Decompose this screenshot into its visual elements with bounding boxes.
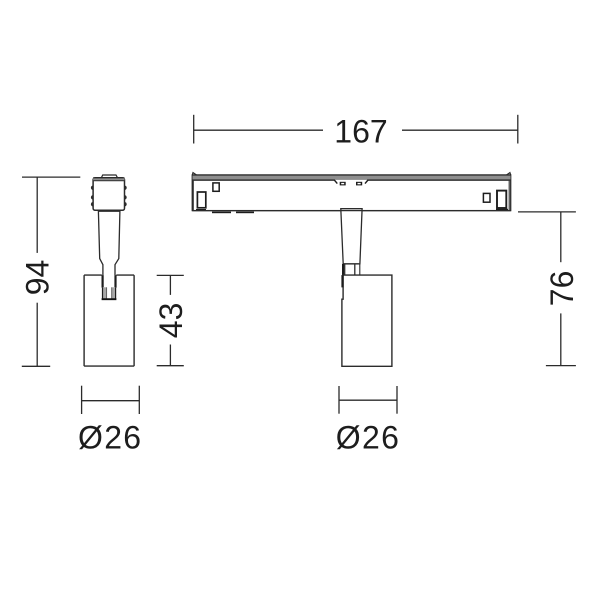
spotlight side view: tapered stem and neck xyxy=(98,211,120,287)
dimension 43: measure line xyxy=(169,275,171,365)
svg-text:167: 167 xyxy=(334,113,387,149)
track profile: middle cutout right edge xyxy=(365,180,368,184)
dimension 94: top tick xyxy=(22,176,80,178)
dimension 167: measure line xyxy=(194,129,518,131)
track profile: right slot rectangle large xyxy=(497,191,506,208)
track profile: body xyxy=(192,175,510,211)
track profile: right end double edge xyxy=(508,177,510,211)
spotlight side view: slot left wall xyxy=(101,275,103,288)
dimension diameter 26 right: left tick xyxy=(338,386,340,414)
track profile: top-right corner chamfer xyxy=(507,173,511,175)
track profile: left slot rectangle small xyxy=(213,183,219,191)
spotlight front view: cylinder body xyxy=(342,275,392,366)
svg-text:76: 76 xyxy=(544,271,580,307)
svg-text:Ø26: Ø26 xyxy=(78,419,142,455)
spotlight side view: top tab xyxy=(101,175,117,178)
spotlight front view: neck step xyxy=(343,264,360,288)
track profile: contact pad right xyxy=(356,182,362,186)
dimension 94: measure line xyxy=(36,177,38,366)
spotlight side view: knob box xyxy=(93,178,124,211)
dimension 76: bottom tick xyxy=(546,365,576,367)
track profile: right slot rectangle small xyxy=(483,193,490,202)
spotlight side view: cylinder body xyxy=(84,275,134,366)
dimension diameter 26 left: right tick xyxy=(138,386,140,414)
spotlight front view: slot edge dark xyxy=(341,275,343,287)
dimension 167: left tick xyxy=(193,115,195,144)
track profile: dark mark under right rectangle xyxy=(496,209,508,211)
track profile: contact pad left xyxy=(340,182,346,186)
spotlight side view: knurl bumps right xyxy=(122,186,127,207)
spotlight side view: knurl bumps left xyxy=(91,186,96,207)
dimension diameter 26 left: left tick xyxy=(81,386,83,414)
track profile: top-left corner chamfer xyxy=(192,173,196,175)
dimension 76: top tick xyxy=(518,211,576,213)
spotlight side view: slot right wall xyxy=(114,275,116,288)
track profile: grey top band xyxy=(192,175,510,180)
dimension diameter 26 left: measure line xyxy=(82,400,140,402)
dimension 94: bottom tick xyxy=(22,365,50,367)
track profile: middle cutout left edge xyxy=(334,180,337,184)
dimension diameter 26 right: right tick xyxy=(396,386,398,414)
svg-text:94: 94 xyxy=(19,260,55,296)
spotlight side view: shaded insert in slot xyxy=(102,287,116,298)
dimension 43: bottom tick xyxy=(157,365,184,367)
svg-text:43: 43 xyxy=(153,303,189,339)
dimension 76: measure line xyxy=(560,212,562,366)
spotlight front view: stem xyxy=(192,209,510,264)
spotlight side view: knob grey band xyxy=(93,178,124,181)
track profile: hidden dashes bottom left xyxy=(196,209,254,213)
track profile: left slot rectangle large xyxy=(197,192,205,208)
dimension 167: right tick xyxy=(517,115,519,144)
dimension diameter 26 right: measure line xyxy=(339,399,397,401)
spotlight side view: teeth under knob xyxy=(99,210,118,212)
svg-text:Ø26: Ø26 xyxy=(336,419,400,455)
spotlight side view: slot bottom xyxy=(102,298,117,300)
track profile: left end thick edge xyxy=(192,175,194,211)
dimension 43: top tick xyxy=(157,274,184,276)
